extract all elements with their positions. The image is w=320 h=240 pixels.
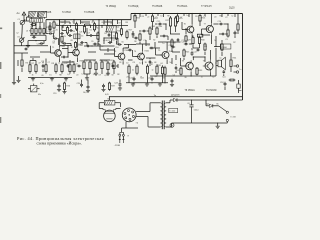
capacitor C8b [93, 43, 95, 45]
svg-text:R32: R32 [177, 70, 181, 72]
capacitor C24 filter [191, 100, 193, 105]
resistor R33 [196, 67, 198, 68]
resistor R24 [152, 14, 154, 16]
capacitor C43 [42, 64, 44, 65]
svg-text:R23: R23 [136, 18, 140, 20]
svg-text:R17: R17 [129, 30, 133, 32]
ground c14b [171, 83, 173, 84]
svg-text:82: 82 [212, 76, 214, 78]
resistor R3 [35, 27, 37, 29]
svg-text:Т6: Т6 [184, 24, 186, 26]
capacitor C8 [62, 42, 64, 44]
wire L3 down b [35, 22, 37, 27]
capacitor C31 [80, 42, 81, 44]
lamp L1 dial [104, 110, 116, 122]
svg-text:Т7: Т7 [204, 23, 206, 25]
capacitor C14 [151, 77, 153, 79]
resistor R16 [121, 27, 123, 29]
wire if v1 [59, 20, 61, 26]
resistor R7 [35, 63, 37, 65]
wire gang link [21, 25, 23, 33]
tube socket XS1 [122, 108, 136, 122]
jack out lower [226, 119, 228, 121]
svg-text:С1: С1 [18, 19, 20, 21]
transistor T9 [205, 62, 213, 70]
svg-text:R31: R31 [158, 65, 162, 67]
wire r49 [116, 41, 118, 45]
wire second bus [56, 25, 128, 27]
ground power [217, 123, 219, 126]
svg-text:Т3: Т3 [114, 51, 116, 53]
wire mid v2 [112, 20, 114, 26]
svg-text:С5: С5 [53, 36, 55, 38]
capacitor C42 [67, 64, 69, 65]
wire mesh1 [60, 21, 71, 23]
svg-text:10: 10 [126, 62, 128, 64]
svg-text:Т2 И502: Т2 И502 [62, 12, 72, 14]
pilot lamp [170, 123, 174, 127]
node c24 top [191, 100, 192, 101]
wire drop r22 [164, 76, 166, 83]
wire mid v5 [103, 38, 105, 44]
wire T6 base [182, 29, 187, 31]
wire bottom bus [110, 96, 243, 98]
svg-text:15: 15 [49, 74, 51, 76]
resistor R20 [147, 64, 149, 66]
svg-text:С4 20: С4 20 [48, 31, 53, 33]
wire v50 [49, 22, 51, 30]
svg-text:4н: 4н [33, 35, 35, 37]
resistor R26 [199, 14, 201, 16]
node cluster a [31, 26, 32, 27]
svg-text:С20: С20 [77, 83, 81, 85]
wire extra horizontals [60, 45, 72, 47]
svg-text:С12: С12 [147, 45, 151, 47]
wire pot leads [28, 88, 31, 90]
wire left frame [13, 22, 15, 82]
resistor R57 [73, 63, 75, 65]
wire tr top jog [169, 100, 171, 103]
wire r29 gnd [192, 46, 194, 49]
svg-text:С2: С2 [43, 32, 45, 34]
capacitor C39 [149, 60, 151, 61]
svg-text:П401: П401 [169, 51, 174, 53]
inductor L2 shielded box [38, 11, 46, 17]
svg-text:R7: R7 [32, 63, 34, 65]
scan speck left 0 [0, 28, 2, 30]
svg-text:5б: 5б [169, 62, 171, 64]
svg-text:С23: С23 [114, 83, 118, 85]
svg-text:82: 82 [112, 74, 114, 76]
resistor R13 [84, 24, 86, 26]
resistor R5 [43, 27, 45, 29]
junction dots mid [98, 43, 99, 44]
jack Gn2 [236, 71, 238, 73]
wire r51 [171, 48, 173, 52]
svg-text:91: 91 [93, 60, 95, 62]
resistor R49 [116, 32, 118, 34]
resistor R51 [171, 39, 173, 41]
capacitor C25 [77, 65, 79, 67]
svg-text:С28: С28 [181, 42, 185, 44]
wire d4 feed [205, 100, 207, 106]
svg-text:R9: R9 [167, 15, 169, 17]
resistor R6 [29, 63, 31, 65]
wire top bus left [46, 19, 131, 21]
svg-text:16 2П: 16 2П [30, 21, 35, 23]
coupling box T6T7 [197, 34, 202, 37]
wire T2 emitter [77, 58, 79, 62]
svg-text:Т9 П203Э: Т9 П203Э [206, 90, 217, 92]
wire c8b [91, 43, 93, 45]
wire if v4 [86, 28, 88, 33]
svg-text:47: 47 [89, 25, 91, 27]
wire r56 [21, 53, 23, 59]
wire r38 gnd [83, 71, 85, 74]
svg-text:R9: R9 [173, 42, 175, 44]
svg-text:10к: 10к [116, 27, 119, 29]
svg-text:33: 33 [119, 62, 121, 64]
wire jack lower [226, 122, 228, 124]
svg-text:С17: С17 [194, 52, 198, 54]
wire speaker top [216, 60, 218, 62]
wire T9 emitter [210, 72, 212, 76]
inductor L3 box [30, 19, 43, 23]
transformer secondary winding [164, 103, 166, 127]
svg-text:20: 20 [126, 77, 128, 79]
ground c22 [103, 88, 105, 89]
scan speck left 1 [0, 62, 1, 69]
svg-text:6,8: 6,8 [80, 32, 83, 34]
wire c40 [175, 64, 177, 65]
svg-text:5,6к: 5,6к [37, 44, 41, 46]
resistor R26b [227, 29, 229, 31]
svg-text:5б: 5б [214, 40, 216, 42]
wire c4 links [45, 20, 47, 34]
svg-text:R2: R2 [104, 33, 106, 35]
junction dots audio [193, 56, 194, 57]
svg-text:82: 82 [153, 40, 155, 42]
svg-text:С9 0,01: С9 0,01 [103, 40, 110, 42]
svg-text:Т2: Т2 [71, 47, 73, 49]
inductor L4 IF can [74, 34, 80, 39]
resistor R45 [183, 49, 185, 50]
wire extra drops [64, 20, 66, 24]
capacitor C36 [162, 35, 163, 37]
svg-text:Вк: Вк [217, 103, 219, 105]
wire r8 top [45, 59, 47, 63]
plug X1 prong left [120, 131, 124, 133]
wire power bus top [181, 99, 243, 101]
capacitor C9 [108, 42, 110, 44]
inductor L5 shielded [106, 26, 116, 32]
capacitor C44 [24, 48, 25, 50]
svg-text:С7: С7 [225, 17, 227, 19]
svg-text:R8: R8 [59, 75, 61, 77]
wire if v3b [98, 33, 100, 42]
svg-text:С29: С29 [169, 45, 173, 47]
svg-text:10,0: 10,0 [83, 92, 87, 94]
resistor R11 [67, 26, 69, 28]
svg-text:R4: R4 [72, 31, 74, 33]
speaker BA1 [218, 60, 222, 67]
svg-text:Гн 5В: Гн 5В [231, 117, 237, 119]
svg-text:R6: R6 [219, 15, 221, 17]
wire lamp tab left [99, 108, 103, 110]
svg-text:Т5 И502Б: Т5 И502Б [152, 6, 163, 8]
svg-text:R10: R10 [64, 63, 68, 65]
svg-text:R8: R8 [125, 22, 127, 24]
svg-text:R15: R15 [77, 44, 81, 46]
svg-text:15: 15 [81, 35, 83, 37]
svg-text:С11: С11 [125, 48, 128, 50]
svg-text:2к: 2к [58, 62, 60, 64]
capacitor C14b [171, 79, 173, 81]
antenna WA1 [22, 12, 26, 20]
svg-text:500,0: 500,0 [194, 110, 199, 112]
wire if h1 [62, 30, 66, 32]
wire left mesh [14, 52, 22, 54]
svg-text:С2: С2 [173, 74, 175, 76]
resistor R52 [185, 35, 187, 36]
wire t4 emitter [142, 62, 144, 65]
junction dots bus2 [62, 25, 63, 26]
resistor R1 [31, 24, 32, 26]
wire c39 [149, 58, 151, 59]
ground emitters rail3 [65, 77, 67, 78]
wire cluster drop [43, 41, 45, 44]
capacitor C20 [81, 83, 83, 85]
wire T1 emitter [59, 58, 61, 62]
node T2 bus2 [77, 25, 78, 26]
wire T5 base feed [156, 54, 163, 56]
resistor R27 [170, 16, 172, 18]
wire c38 [219, 33, 222, 35]
svg-text:20: 20 [76, 74, 78, 76]
wire if v5 [84, 24, 86, 26]
svg-text:47: 47 [190, 44, 192, 46]
svg-text:R6: R6 [26, 63, 28, 65]
svg-text:Д3 Д226: Д3 Д226 [171, 95, 180, 97]
wire r41 gnd [101, 71, 103, 74]
svg-text:С6: С6 [187, 103, 189, 105]
wire box link [214, 46, 220, 48]
wire r55 [221, 52, 223, 56]
scan speck left 3 [0, 117, 1, 123]
capacitor C17 [191, 51, 193, 53]
ground rail83 c [159, 83, 161, 84]
capacitor C35 [131, 33, 132, 35]
capacitor C29 [171, 46, 173, 48]
wire drop r18 [128, 75, 130, 83]
junction dots right [165, 23, 166, 24]
svg-text:R26: R26 [202, 18, 206, 20]
wire d4 out [213, 105, 219, 107]
wire T2 base [68, 52, 73, 54]
wire socket down [125, 122, 127, 128]
svg-text:R41: R41 [104, 60, 108, 62]
resistor R23 [134, 14, 136, 16]
capacitor C38 [221, 33, 222, 35]
resistor R4 [39, 26, 41, 28]
svg-text:П401: П401 [145, 51, 150, 53]
resistor R19 [136, 64, 138, 66]
capacitor C22 [103, 84, 105, 86]
svg-text:10: 10 [160, 16, 162, 18]
svg-text:С2: С2 [49, 23, 51, 25]
resistor R40 [95, 61, 97, 63]
svg-text:20: 20 [55, 30, 57, 32]
ground fringe a [18, 79, 20, 80]
wire socket right top [136, 111, 150, 113]
capacitor C19 [58, 84, 60, 86]
svg-text:П402: П402 [125, 50, 130, 52]
wire r48 [97, 41, 99, 46]
svg-text:1б: 1б [30, 26, 32, 28]
wire fringe right [238, 80, 240, 84]
svg-text:4,5к: 4,5к [40, 83, 44, 85]
svg-text:С1: С1 [133, 16, 135, 18]
wire r43 [149, 36, 151, 40]
wire r31 drop [162, 76, 164, 83]
svg-text:R20: R20 [149, 64, 153, 66]
svg-text:R33: R33 [199, 70, 203, 72]
resistor R22 [164, 66, 166, 68]
wire r23 down [134, 23, 136, 28]
svg-text:R37: R37 [111, 86, 115, 88]
wire T6 collector up [191, 14, 193, 25]
wire c31 net [85, 42, 88, 44]
svg-text:3к: 3к [32, 75, 34, 77]
svg-text:С3: С3 [63, 36, 65, 38]
svg-text:1к: 1к [29, 62, 31, 64]
resistor R53 [237, 23, 239, 25]
resistor R42 [107, 61, 109, 63]
plug X1 prong right [122, 132, 124, 134]
svg-text:С6: С6 [41, 75, 43, 77]
transistor T1 [55, 50, 62, 57]
wire L3 down c [39, 22, 41, 27]
transformer primary winding [160, 103, 162, 127]
transistor T4 [138, 53, 145, 60]
wire power bus bottom [172, 122, 228, 124]
svg-text:2Ц20: 2Ц20 [229, 8, 235, 10]
ground emitters rail2 [51, 77, 53, 78]
jack Gn1 [236, 65, 238, 67]
svg-text:47: 47 [97, 35, 99, 37]
resistor R8 [45, 63, 47, 65]
wire T7 base [202, 28, 207, 30]
wire c20 top [81, 80, 83, 83]
svg-text:R43: R43 [152, 26, 156, 28]
resistor R30 [199, 36, 201, 38]
wire T5 collector up [166, 42, 168, 50]
svg-text:R38: R38 [80, 60, 84, 62]
svg-text:С15: С15 [157, 21, 161, 23]
wire t3 emitter [122, 62, 124, 65]
resistor R12 [76, 22, 78, 24]
wire T2 collector up [77, 26, 79, 48]
wire T9 collector [210, 50, 212, 60]
resistor R9 [55, 63, 57, 65]
svg-text:С26: С26 [110, 64, 114, 66]
svg-text:Т3 И502В: Т3 И502В [84, 12, 95, 14]
wire r34 [230, 53, 232, 59]
resistor R55 [221, 43, 223, 44]
svg-text:R4: R4 [55, 24, 57, 26]
ground r38 [86, 76, 88, 79]
node bus dots [134, 13, 135, 14]
svg-text:R7: R7 [233, 42, 235, 44]
svg-text:R5: R5 [46, 27, 48, 29]
lamp housing Ln box [104, 100, 115, 105]
wire pilot [171, 123, 173, 127]
wire t5 emitter [166, 60, 168, 64]
svg-text:82: 82 [113, 36, 115, 38]
svg-text:R2: R2 [117, 74, 119, 76]
wire if v3 [98, 20, 100, 33]
svg-text:Т7 6П14П: Т7 6П14П [201, 6, 212, 8]
capacitor C5 [53, 38, 55, 40]
resistor R32 [180, 67, 182, 68]
wire plug right stub [126, 127, 138, 129]
wire r27 drop [170, 28, 172, 34]
wire drop r20 [147, 75, 149, 83]
svg-text:R13: R13 [110, 60, 113, 62]
transistor T2 [73, 49, 80, 56]
svg-text:0,1: 0,1 [67, 74, 70, 76]
wire mid h2 [104, 37, 118, 39]
svg-text:С8: С8 [132, 62, 134, 64]
svg-text:Д4: Д4 [206, 103, 208, 105]
wire r46 [53, 30, 55, 34]
svg-text:С9: С9 [118, 23, 120, 25]
svg-text:Гр1: Гр1 [223, 77, 226, 79]
transformer core [161, 101, 163, 130]
svg-text:68: 68 [154, 62, 156, 64]
svg-text:1,5: 1,5 [93, 74, 96, 76]
svg-text:~220В: ~220В [114, 145, 121, 147]
wire speaker feed [215, 48, 217, 76]
svg-text:5,1: 5,1 [81, 74, 84, 76]
svg-text:Т4 И502Д: Т4 И502Д [128, 6, 139, 8]
svg-text:Гр: Гр [220, 58, 222, 60]
svg-text:Т3 И502Д: Т3 И502Д [106, 6, 117, 8]
wire T1 base [51, 52, 55, 54]
capacitor C15b [142, 30, 144, 32]
resistor R18 [128, 64, 130, 66]
capacitor C32 [86, 45, 87, 47]
svg-text:R29: R29 [187, 40, 191, 42]
boxed label C300 [220, 44, 231, 49]
ground rail83 b [146, 83, 148, 84]
wire mid v4 [111, 32, 113, 43]
wire r10b top [69, 60, 71, 63]
svg-text:С18: С18 [220, 82, 224, 84]
svg-text:R36: R36 [66, 86, 70, 88]
diode D3 [174, 98, 178, 101]
boxed label Gn220 [169, 108, 178, 112]
transistor T8 [186, 62, 194, 70]
svg-text:R25: R25 [179, 18, 183, 20]
wire mid v3 [121, 20, 123, 27]
capacitor C13 [133, 77, 135, 79]
wire mesh2 [81, 21, 91, 23]
wire mid v1 [107, 20, 109, 26]
svg-text:С5: С5 [89, 29, 91, 31]
transistor T5 [162, 52, 169, 59]
capacitor C3b [39, 43, 41, 45]
